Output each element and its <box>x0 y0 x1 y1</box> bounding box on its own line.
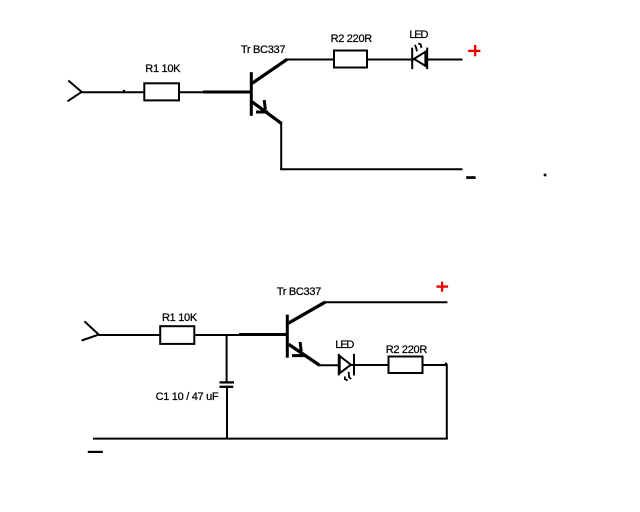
resistor R2 (top) <box>334 51 367 68</box>
stray dot <box>544 174 547 177</box>
wire bottom rail (top circuit) <box>280 168 462 170</box>
wire R1 to junction (thin) <box>195 334 240 336</box>
label Tr BC337 (top) <box>241 45 285 56</box>
label R1 10K (top) <box>145 64 180 75</box>
transistor Q2 emitter <box>289 344 320 365</box>
LED D2 light rays <box>345 372 352 381</box>
wire input to R1 <box>82 90 144 92</box>
label R2 220R (top) <box>331 34 372 45</box>
wire base (thick part) <box>203 91 251 94</box>
emitter arrow head <box>256 100 268 112</box>
wire R1 to base (thin part) <box>180 91 204 93</box>
wire right side down <box>446 364 448 440</box>
transistor Q1 base bar <box>250 72 253 116</box>
label R1 10K (bottom) <box>162 313 197 324</box>
LED D1 (top): cathode bar left <box>411 48 413 70</box>
wire base thick (bottom) <box>239 333 287 336</box>
capacitor C1 bottom plate <box>220 386 234 388</box>
plus terminal (top, red) <box>468 45 480 56</box>
capacitor C1 top plate <box>220 381 235 383</box>
wire emitter down <box>280 122 282 169</box>
transistor Q2 base bar <box>286 315 289 358</box>
LED D2 bar left <box>338 354 340 376</box>
emitter arrow head (bottom) <box>292 342 306 356</box>
wire LED to R2 (bottom) <box>351 364 389 366</box>
wire R2 to corner <box>424 364 447 366</box>
minus terminal (bottom) <box>88 451 103 453</box>
resistor R1 (top) <box>144 83 179 100</box>
wire capacitor to ground rail <box>226 387 228 439</box>
LED D1 triangle <box>414 52 425 66</box>
resistor R2 (bottom) <box>389 357 423 374</box>
label Tr BC337 (bottom) <box>277 287 321 298</box>
transistor Q1 emitter <box>252 102 281 123</box>
resistor R1 (bottom) <box>160 326 194 344</box>
input terminal arrow (top circuit) <box>68 81 82 102</box>
ground rail (bottom circuit) <box>93 438 448 440</box>
transistor Q2 collector <box>288 302 447 323</box>
wire emitter to LED <box>318 364 341 366</box>
LED D2 triangle <box>340 356 351 373</box>
label C1 10 / 47 uF <box>156 392 219 403</box>
corner stub <box>445 363 447 365</box>
wire input to R1 (bottom) <box>99 334 161 336</box>
wire LED to plus <box>425 59 463 61</box>
wire R2 to LED <box>368 59 415 61</box>
input terminal arrow (bottom circuit) <box>82 321 99 340</box>
label LED (top) <box>409 30 427 41</box>
label LED (bottom) <box>335 340 353 351</box>
node junction to capacitor <box>226 335 228 382</box>
label R2 220R (bottom) <box>386 345 427 356</box>
minus terminal (top) <box>466 176 475 179</box>
LED D1 light rays <box>415 44 422 52</box>
transistor Q1 collector <box>252 59 334 83</box>
plus terminal (bottom, red) <box>436 282 448 292</box>
LED D1 bar right <box>426 48 428 70</box>
LED D2 cathode bar right <box>353 354 355 376</box>
